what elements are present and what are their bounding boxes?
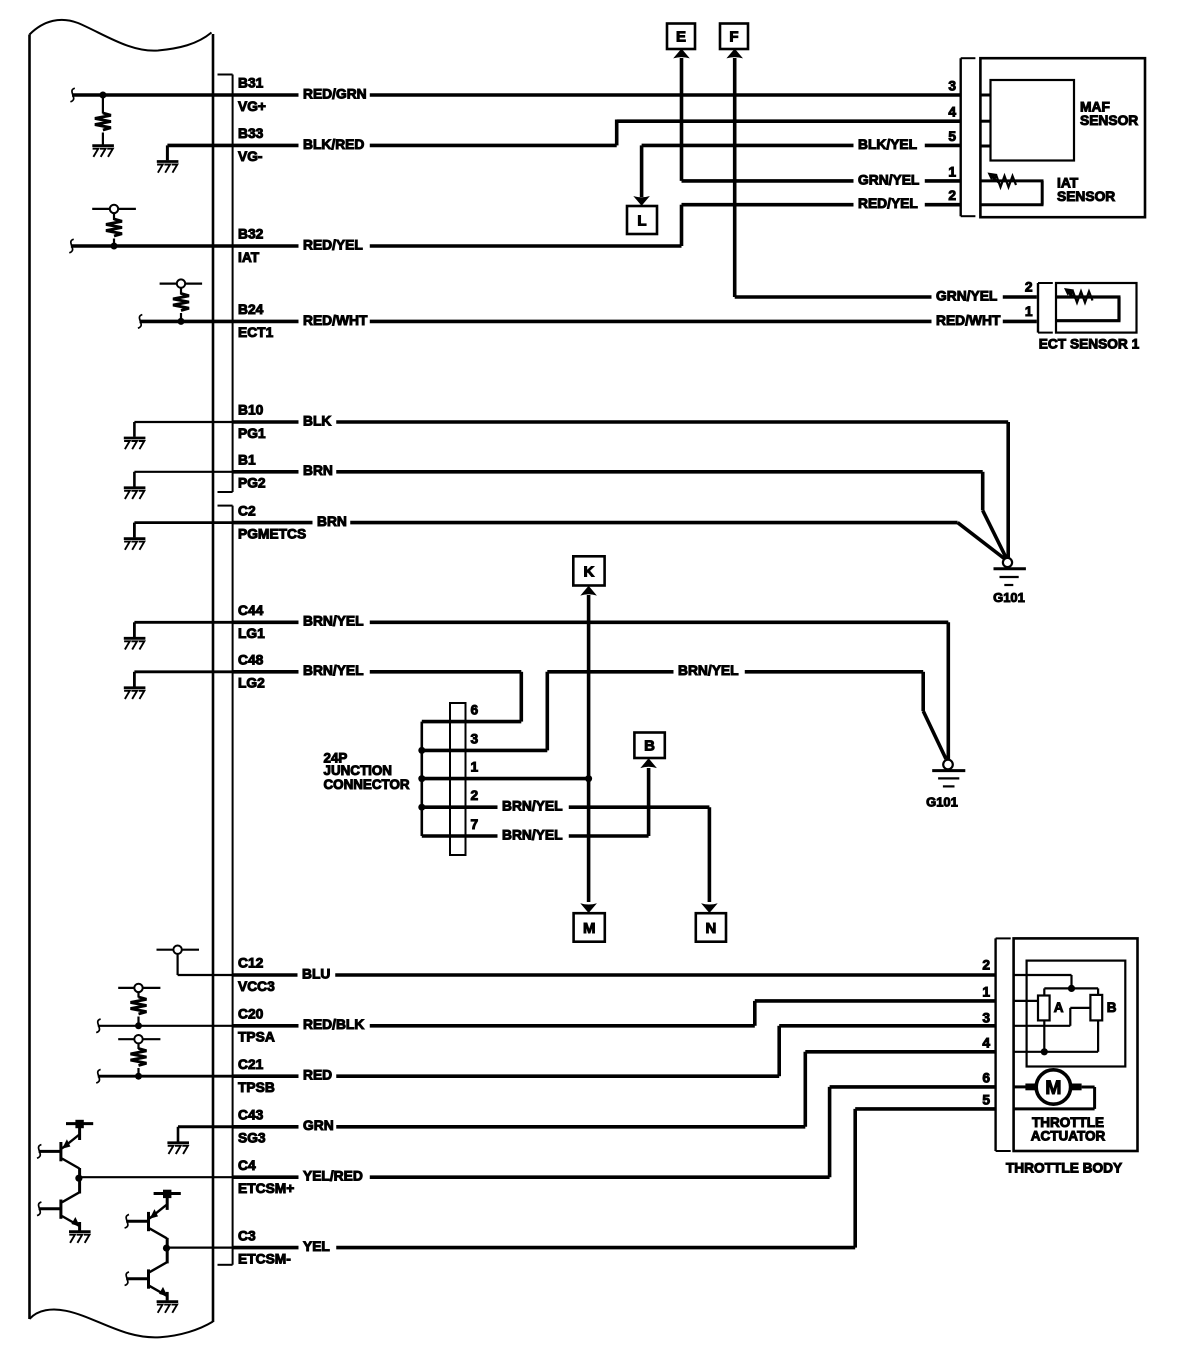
svg-text:ETCSM-: ETCSM-: [238, 1251, 291, 1266]
motor lead 5: [1014, 1087, 1095, 1109]
wire BLK/RED from ECM pin B33 (VG-): [233, 126, 617, 164]
svg-text:BRN/YEL: BRN/YEL: [678, 663, 739, 678]
junction label: [324, 750, 410, 791]
svg-text:RED/YEL: RED/YEL: [303, 237, 363, 252]
svg-text:RED/WHT: RED/WHT: [303, 313, 368, 328]
wire BRN from ECM pin B1 (PG2): [233, 453, 983, 491]
wire TPSB riser to throttle body: [779, 1026, 995, 1076]
LG2 relay run: [547, 663, 946, 759]
svg-text:1: 1: [982, 985, 990, 1000]
svg-text:3: 3: [948, 79, 956, 94]
svg-text:B31: B31: [238, 76, 264, 91]
pin6: [422, 703, 522, 722]
svg-text:LG1: LG1: [238, 626, 265, 641]
svg-text:VCC3: VCC3: [238, 979, 275, 994]
wire BLK from ECM pin B10 (PG1): [233, 403, 1009, 441]
wire BLU from ECM pin C12 (VCC3): [233, 956, 996, 994]
svg-text:5: 5: [982, 1093, 990, 1108]
ECM connector bar, B-pin group: [218, 75, 233, 493]
TB label: [1006, 1161, 1122, 1176]
K box: [573, 556, 604, 585]
M box: [574, 913, 605, 942]
LG2 internal: [124, 672, 233, 699]
svg-text:SG3: SG3: [238, 1131, 266, 1146]
TB bracket: [996, 938, 1011, 1151]
svg-text:C4: C4: [238, 1158, 256, 1173]
MAF bracket: [961, 58, 976, 216]
IAT internal: [69, 205, 232, 253]
L box: [627, 206, 657, 234]
svg-text:4: 4: [982, 1036, 990, 1051]
svg-text:2: 2: [471, 788, 479, 803]
wire BRN/YEL from ECM pin C48 (LG2): [233, 653, 522, 691]
svg-text:B1: B1: [238, 453, 256, 468]
svg-text:BLK/YEL: BLK/YEL: [858, 137, 917, 152]
MAF stubs: [982, 95, 991, 146]
ECM torn-page top wavy edge: [30, 20, 212, 51]
resistor A: [1038, 996, 1064, 1021]
wire SG3 riser to throttle body: [805, 1052, 995, 1127]
svg-text:C44: C44: [238, 603, 264, 618]
svg-text:C48: C48: [238, 653, 264, 668]
svg-text:3: 3: [471, 731, 479, 746]
Q2: [37, 1192, 80, 1226]
IAT label: [1057, 176, 1115, 204]
wire RED/YEL from ECM pin B32 (IAT): [233, 227, 682, 265]
svg-text:VG+: VG+: [238, 99, 266, 114]
svg-text:K: K: [584, 563, 595, 580]
bus bar: [420, 722, 423, 836]
PGMETCS internal: [124, 523, 233, 550]
wire to L arrow: [633, 145, 650, 205]
TPS vcc bus: [1014, 975, 1099, 996]
svg-text:THROTTLE BODY: THROTTLE BODY: [1006, 1161, 1122, 1176]
TB pin numbers: [982, 958, 990, 1108]
svg-text:ETCSM+: ETCSM+: [238, 1181, 294, 1196]
LG1 internal: [124, 622, 233, 649]
ECM control module torn-page outline (left edge): [28, 35, 31, 1320]
K-M line: [580, 586, 597, 913]
VCC3 internal: [157, 946, 233, 976]
ECM torn-page right edge: [212, 34, 215, 1322]
svg-text:5: 5: [948, 129, 956, 144]
svg-text:6: 6: [471, 703, 479, 718]
wire RED/GRN from ECM pin B31 (VG+): [233, 76, 960, 114]
motor: [1025, 1070, 1081, 1104]
svg-text:3: 3: [982, 1011, 990, 1026]
svg-text:BRN: BRN: [303, 463, 333, 478]
svg-text:G101: G101: [993, 590, 1025, 605]
node ETCSM+: [75, 1168, 232, 1194]
svg-text:E: E: [676, 29, 686, 46]
svg-text:M: M: [1045, 1077, 1061, 1099]
svg-text:PG1: PG1: [238, 426, 266, 441]
MAF element: [991, 80, 1075, 161]
wire YEL/RED from ECM pin C4 (ETCSM+): [233, 1158, 830, 1196]
svg-text:RED: RED: [303, 1068, 332, 1083]
wire BRN/YEL from ECM pin C44 (LG1): [233, 603, 949, 641]
pin1: [418, 760, 592, 783]
svg-text:CONNECTOR: CONNECTOR: [324, 777, 410, 792]
svg-text:YEL: YEL: [303, 1239, 330, 1254]
TPSB wiper: [1014, 1008, 1091, 1026]
F box: [720, 24, 748, 50]
svg-text:C3: C3: [238, 1228, 256, 1243]
svg-text:B24: B24: [238, 302, 264, 317]
svg-text:ECT1: ECT1: [238, 325, 274, 340]
ECT1 internal: [138, 279, 233, 328]
ECT bracket: [1038, 283, 1053, 333]
svg-text:6: 6: [982, 1071, 990, 1086]
TA label: [1031, 1115, 1106, 1144]
svg-text:TPSA: TPSA: [238, 1030, 275, 1045]
svg-text:C12: C12: [238, 956, 264, 971]
ECT thermistor: [1064, 288, 1093, 303]
BRN diagonal: [983, 472, 1007, 559]
svg-text:ACTUATOR: ACTUATOR: [1031, 1129, 1106, 1144]
E box: [667, 24, 695, 50]
pin2: [418, 788, 709, 816]
LG1 drop: [946, 622, 950, 760]
LG2 drop: [519, 672, 523, 722]
B box: [634, 733, 664, 759]
wire GRN from ECM pin C43 (SG3): [233, 1108, 806, 1146]
svg-text:7: 7: [471, 817, 479, 832]
svg-text:BRN/YEL: BRN/YEL: [502, 827, 563, 842]
svg-text:A: A: [1054, 1000, 1064, 1015]
Q2 ground: [69, 1222, 91, 1243]
RED/WHT label 2: [932, 312, 1003, 330]
wire RED/BLK from ECM pin C20 (TPSA): [233, 1007, 755, 1045]
Q4: [125, 1262, 168, 1296]
wire TPSA riser to throttle body: [755, 1001, 996, 1026]
VG- internal: [157, 145, 233, 172]
svg-text:B: B: [1107, 1000, 1117, 1015]
VG+ internal: [70, 88, 232, 157]
svg-text:YEL/RED: YEL/RED: [303, 1169, 363, 1184]
wire ETCSM- riser to throttle body: [855, 1109, 995, 1248]
svg-text:SENSOR: SENSOR: [1080, 113, 1138, 128]
svg-text:4: 4: [948, 105, 956, 120]
svg-text:G101: G101: [926, 795, 958, 810]
TPSB internal: [96, 1035, 232, 1083]
ETCSM- supply: [154, 1190, 181, 1210]
svg-text:BRN: BRN: [317, 514, 347, 529]
svg-text:2: 2: [948, 188, 956, 203]
ECT pin numbers: [1025, 280, 1033, 320]
Q4 ground: [157, 1292, 179, 1313]
Q3: [125, 1204, 167, 1238]
PG1 internal: [124, 422, 233, 449]
TB box: [1014, 938, 1138, 1151]
IAT pin numbers: [948, 164, 956, 203]
svg-text:TPSB: TPSB: [238, 1080, 275, 1095]
TPS inner box: [1027, 961, 1126, 1067]
TPSA internal: [96, 984, 232, 1033]
svg-text:C43: C43: [238, 1108, 264, 1123]
pin7: [422, 817, 649, 845]
svg-text:GRN/YEL: GRN/YEL: [936, 288, 997, 303]
svg-text:F: F: [729, 29, 738, 46]
motor lead 6: [1014, 1085, 1026, 1088]
F riser: [726, 49, 743, 297]
TPS sg lead: [1014, 1020, 1099, 1055]
ECT label: [1039, 337, 1140, 352]
wire BRN from ECM pin C2 (PGMETCS): [233, 503, 958, 541]
MAF pin numbers: [948, 79, 956, 145]
junction housing: [450, 703, 466, 855]
svg-text:IAT: IAT: [238, 250, 260, 265]
svg-text:M: M: [583, 920, 596, 937]
svg-text:2: 2: [1025, 280, 1033, 295]
svg-text:B: B: [644, 738, 655, 755]
svg-text:C21: C21: [238, 1057, 264, 1072]
svg-text:1: 1: [471, 760, 479, 775]
svg-text:PGMETCS: PGMETCS: [238, 526, 306, 541]
pin3: [418, 731, 547, 754]
G101 upper symbol: [993, 558, 1026, 605]
svg-text:BLK/RED: BLK/RED: [303, 137, 364, 152]
svg-text:B33: B33: [238, 126, 264, 141]
IAT thermistor: [988, 173, 1017, 188]
svg-text:GRN: GRN: [303, 1118, 334, 1133]
svg-text:GRN/YEL: GRN/YEL: [858, 172, 919, 187]
wire BLK/RED upper run to MAF pin 4: [617, 120, 960, 146]
svg-text:SENSOR: SENSOR: [1057, 189, 1115, 204]
wire RED/YEL run to MAF pin 2 with label: [682, 196, 960, 246]
svg-text:BRN/YEL: BRN/YEL: [303, 614, 364, 629]
svg-text:BRN/YEL: BRN/YEL: [502, 799, 563, 814]
GRN/YEL run: [682, 172, 960, 190]
svg-text:1: 1: [1025, 304, 1033, 319]
node ETCSM-: [163, 1238, 233, 1264]
ETCSM+ supply: [66, 1120, 93, 1140]
svg-text:VG-: VG-: [238, 149, 263, 164]
N box: [696, 913, 726, 942]
svg-text:BRN/YEL: BRN/YEL: [303, 663, 364, 678]
B riser: [640, 758, 657, 836]
wire BLK/YEL horizontal run: [642, 136, 960, 154]
svg-text:2: 2: [982, 958, 990, 973]
N drop: [701, 807, 718, 913]
svg-text:BLK: BLK: [303, 413, 331, 428]
ECT element: [1056, 297, 1121, 321]
BLK drop: [1006, 422, 1010, 558]
svg-text:B10: B10: [238, 403, 264, 418]
svg-text:RED/BLK: RED/BLK: [303, 1017, 364, 1032]
ECM torn-page bottom wavy edge: [30, 1310, 214, 1338]
svg-text:BLU: BLU: [302, 966, 330, 981]
wire RED from ECM pin C21 (TPSB): [233, 1057, 780, 1095]
svg-text:C20: C20: [238, 1007, 264, 1022]
wire YEL from ECM pin C3 (ETCSM-): [233, 1228, 856, 1266]
BRN diagonal 2: [958, 523, 1006, 560]
resistor B: [1090, 995, 1116, 1021]
PG2 internal: [124, 472, 233, 499]
svg-text:L: L: [637, 212, 646, 229]
svg-text:RED/YEL: RED/YEL: [858, 196, 918, 211]
svg-text:RED/GRN: RED/GRN: [303, 86, 367, 101]
G101 lower symbol: [926, 760, 965, 810]
svg-text:C2: C2: [238, 503, 256, 518]
IAT element: [980, 181, 1043, 205]
TPSA wiper: [1014, 1000, 1038, 1002]
wire RED/WHT from ECM pin B24 (ECT1): [233, 302, 1037, 340]
Q1: [37, 1135, 79, 1169]
MAF label: [1080, 100, 1138, 128]
MAF box: [980, 58, 1145, 217]
svg-text:B32: B32: [238, 227, 264, 242]
svg-text:RED/WHT: RED/WHT: [936, 313, 1001, 328]
svg-text:1: 1: [948, 164, 956, 179]
ECT box: [1056, 283, 1137, 333]
svg-text:ECT SENSOR 1: ECT SENSOR 1: [1039, 337, 1140, 352]
GRN/YEL to ECT: [735, 288, 1037, 306]
wire ETCSM+ riser to throttle body: [830, 1087, 996, 1177]
SG3 internal: [167, 1127, 232, 1154]
svg-text:LG2: LG2: [238, 676, 265, 691]
svg-text:PG2: PG2: [238, 476, 266, 491]
ECM connector bar, C-pin group: [218, 506, 233, 1265]
E riser: [673, 49, 690, 181]
svg-text:N: N: [705, 920, 716, 937]
